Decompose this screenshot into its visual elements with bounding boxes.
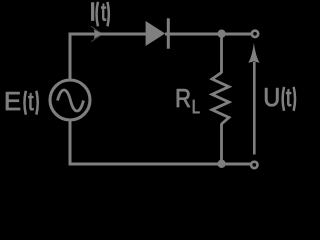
current arrow I(t) xyxy=(94,29,103,39)
resistor RL zigzag xyxy=(212,73,229,125)
label I(t) xyxy=(91,3,106,21)
wire resistor bottom lead xyxy=(220,124,223,165)
wire top-right (diode to top terminal) xyxy=(165,33,252,36)
terminal top xyxy=(252,31,258,37)
label E(t) xyxy=(6,92,33,110)
source E(t) xyxy=(50,80,90,120)
wire left-bottom and bottom rail xyxy=(70,121,251,165)
wire top-left (source top to diode) xyxy=(70,34,147,80)
label RL xyxy=(177,89,200,113)
diode D xyxy=(146,18,169,48)
node junction top xyxy=(217,30,225,38)
terminal bottom xyxy=(251,162,257,168)
label U(t) xyxy=(265,88,291,106)
node junction bottom xyxy=(217,160,225,168)
wire resistor top lead xyxy=(220,34,223,73)
voltage arrow U(t) xyxy=(248,43,259,155)
